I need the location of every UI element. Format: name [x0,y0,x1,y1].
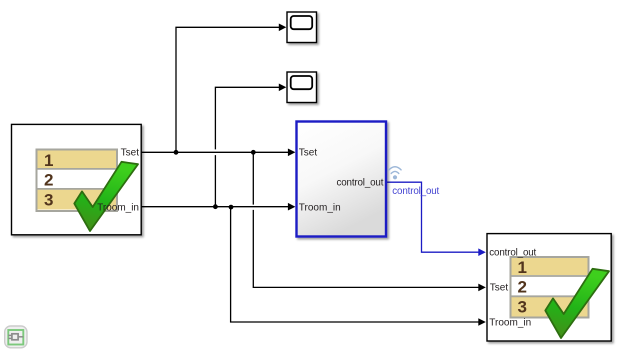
signal table thumbnail (right block) [511,257,589,318]
wire branch Tset to right verify block [253,152,485,291]
canvas corner badge (hide/show block contents) [5,326,27,348]
svg-text:3: 3 [44,191,53,210]
junction dot on Troom_in wire at x=231 [229,205,234,210]
wire Troom_in: left block to subsystem [141,203,295,211]
junction dot on Troom_in wire at x=216 [213,204,218,209]
svg-text:control_out: control_out [392,186,439,197]
signal table thumbnail (left block) [37,150,118,212]
wire branch Troom_in to right verify block [231,207,486,326]
svg-text:Troom_in: Troom_in [97,202,139,213]
checkmark (left block) [74,162,138,231]
junction dot on Tset wire at x=176 [174,150,179,155]
wire control_out (blue): subsystem to right verify block [386,182,486,256]
wire Tset: left block to subsystem [141,149,295,157]
svg-text:1: 1 [44,151,53,170]
wire branch to Scope2 [215,84,286,207]
svg-text:Troom_in: Troom_in [299,202,341,213]
block Signal Editor (left source block) [12,124,142,234]
scope Scope2 [287,72,317,103]
scope Scope1 [287,12,317,43]
svg-text:Tset: Tset [121,148,140,159]
svg-text:2: 2 [44,170,53,189]
svg-text:3: 3 [518,298,527,317]
wire branch to Scope1 [176,24,286,153]
svg-text:Tset: Tset [299,148,318,159]
wireless logging badge on control_out port [389,167,401,180]
block verify sink (right block) [487,234,611,341]
svg-text:1: 1 [518,258,527,277]
svg-text:2: 2 [518,277,527,296]
subsystem controller block (blue) [297,122,387,237]
svg-text:Troom_in: Troom_in [489,317,531,328]
checkmark (right block) [545,269,609,338]
svg-text:control_out: control_out [489,248,536,259]
svg-text:Tset: Tset [490,283,509,294]
svg-text:control_out: control_out [336,178,383,189]
junction dot on Tset wire at x=253.8 [251,150,256,155]
